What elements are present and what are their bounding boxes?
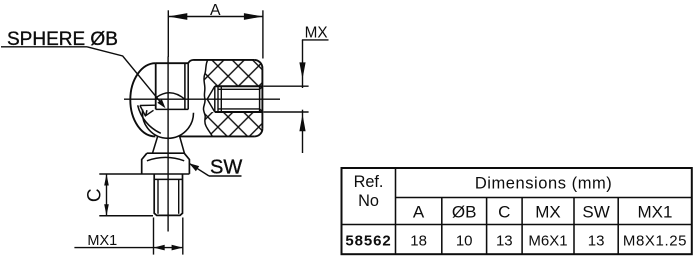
ball (sphere OB) lower arc [142,110,193,139]
threaded hole minor diameter bottom line [218,108,260,110]
dimension A left arrowhead [168,13,187,20]
drill cone at hole bottom [207,86,215,112]
threaded hole MX major diameter top line [215,85,263,87]
table vertical line after MX [573,198,575,255]
table horizontal line under Dimensions [396,197,692,199]
svg-text:M8X1.25: M8X1.25 [623,233,687,250]
SW leader arrowhead [189,163,199,171]
svg-text:ØB: ØB [452,202,477,221]
MX bottom extension line [263,111,308,113]
socket slot top line [140,104,156,106]
MX1 left extension line [153,218,155,255]
C bottom extension line [99,215,153,217]
section break wavy line [203,60,212,136]
nut top face line [147,152,184,154]
table horizontal line under headers [342,224,692,226]
thread start line on stud [154,178,182,180]
C dimension line [106,174,108,216]
svg-text:A: A [413,202,425,221]
hex nut chamfer crown arc [147,157,184,160]
table vertical line after C [521,198,523,255]
step from socket to block [188,60,193,63]
block bottom-right corner [255,129,263,137]
nut bottom and C top extension line [99,173,189,175]
MX upper arrowhead [299,62,305,79]
svg-text:C: C [498,202,510,221]
MX top extension line [263,85,308,87]
hole entrance chamfer diagonals [260,87,263,112]
block top edge [194,59,255,61]
socket left wall [155,63,157,109]
svg-text:58562: 58562 [345,233,391,250]
white hole band over hatch [196,86,262,112]
socket cylinder top edge [156,62,189,64]
threaded hole MX major diameter bottom line [215,111,263,113]
svg-text:SW: SW [582,202,609,221]
dimension A right extension line [262,10,264,58]
table outer border [342,168,692,254]
hex nut SW outline [142,153,190,174]
svg-text:13: 13 [496,233,513,250]
MX lower arrowhead [299,114,305,131]
svg-text:13: 13 [588,233,605,250]
svg-text:MX: MX [305,24,328,41]
dimension A right arrowhead [244,13,263,20]
MX lower dimension line [302,110,304,153]
svg-text:No: No [358,192,379,210]
table vertical line after SW [617,198,619,255]
SW leader horizontal underline [209,175,242,177]
svg-text:MX: MX [535,202,561,221]
MX1 dimension and leader line [74,247,182,249]
dimension A left extension line [167,10,169,57]
leader underline for SPHERE OB [1,46,87,48]
SW leader diagonal [189,163,209,176]
leader line to ball [87,47,161,102]
svg-text:MX1: MX1 [87,233,117,249]
svg-text:MX1: MX1 [638,202,673,221]
table vertical line after Ref No [395,168,397,254]
svg-text:Dimensions (mm): Dimensions (mm) [475,174,613,192]
threaded hole minor diameter top line [218,88,260,90]
socket bottom edge [156,108,189,110]
leader arrowhead [157,99,165,108]
C top arrowhead [104,174,109,186]
MX label underline [302,39,329,41]
horizontal centerline of threaded hole [124,98,280,100]
socket crimp lip arc [138,105,161,133]
svg-text:M6X1: M6X1 [528,233,567,250]
socket right inner wall [184,63,186,109]
hole bottom vertical line [214,86,216,112]
svg-text:C: C [84,188,105,202]
ball socket sphere outline [130,63,155,136]
MX1 right arrowhead [172,245,183,251]
block right face [261,68,263,129]
hole entrance chamfer line [259,86,261,112]
dimension A line [168,16,263,18]
table vertical line after A [441,198,443,255]
svg-text:18: 18 [410,233,427,250]
stud thread minor left line [157,179,159,213]
MX1 right extension line [182,218,184,255]
svg-text:SW: SW [210,156,242,178]
stud thread minor right line [178,179,180,213]
block bottom edge [180,135,255,137]
ball crown seam arc inside socket [156,93,185,100]
vertical centerline of ball stud [167,57,169,232]
MX upper dimension line [302,40,304,88]
threaded stud outline [154,174,182,215]
neck below ball [153,136,185,153]
socket right outer wall [187,63,189,109]
svg-text:Ref.: Ref. [354,173,384,191]
socket slot left notch [140,106,154,116]
table vertical line after OB [486,198,488,255]
hatched section of block body [203,60,262,136]
thread runout vertical line [217,86,219,112]
block top-right corner [254,60,262,68]
thread end vertical line [220,86,222,112]
C bottom arrowhead [104,204,109,216]
svg-text:10: 10 [456,233,473,250]
MX1 left arrowhead [154,245,165,251]
socket slot tick [146,110,147,116]
